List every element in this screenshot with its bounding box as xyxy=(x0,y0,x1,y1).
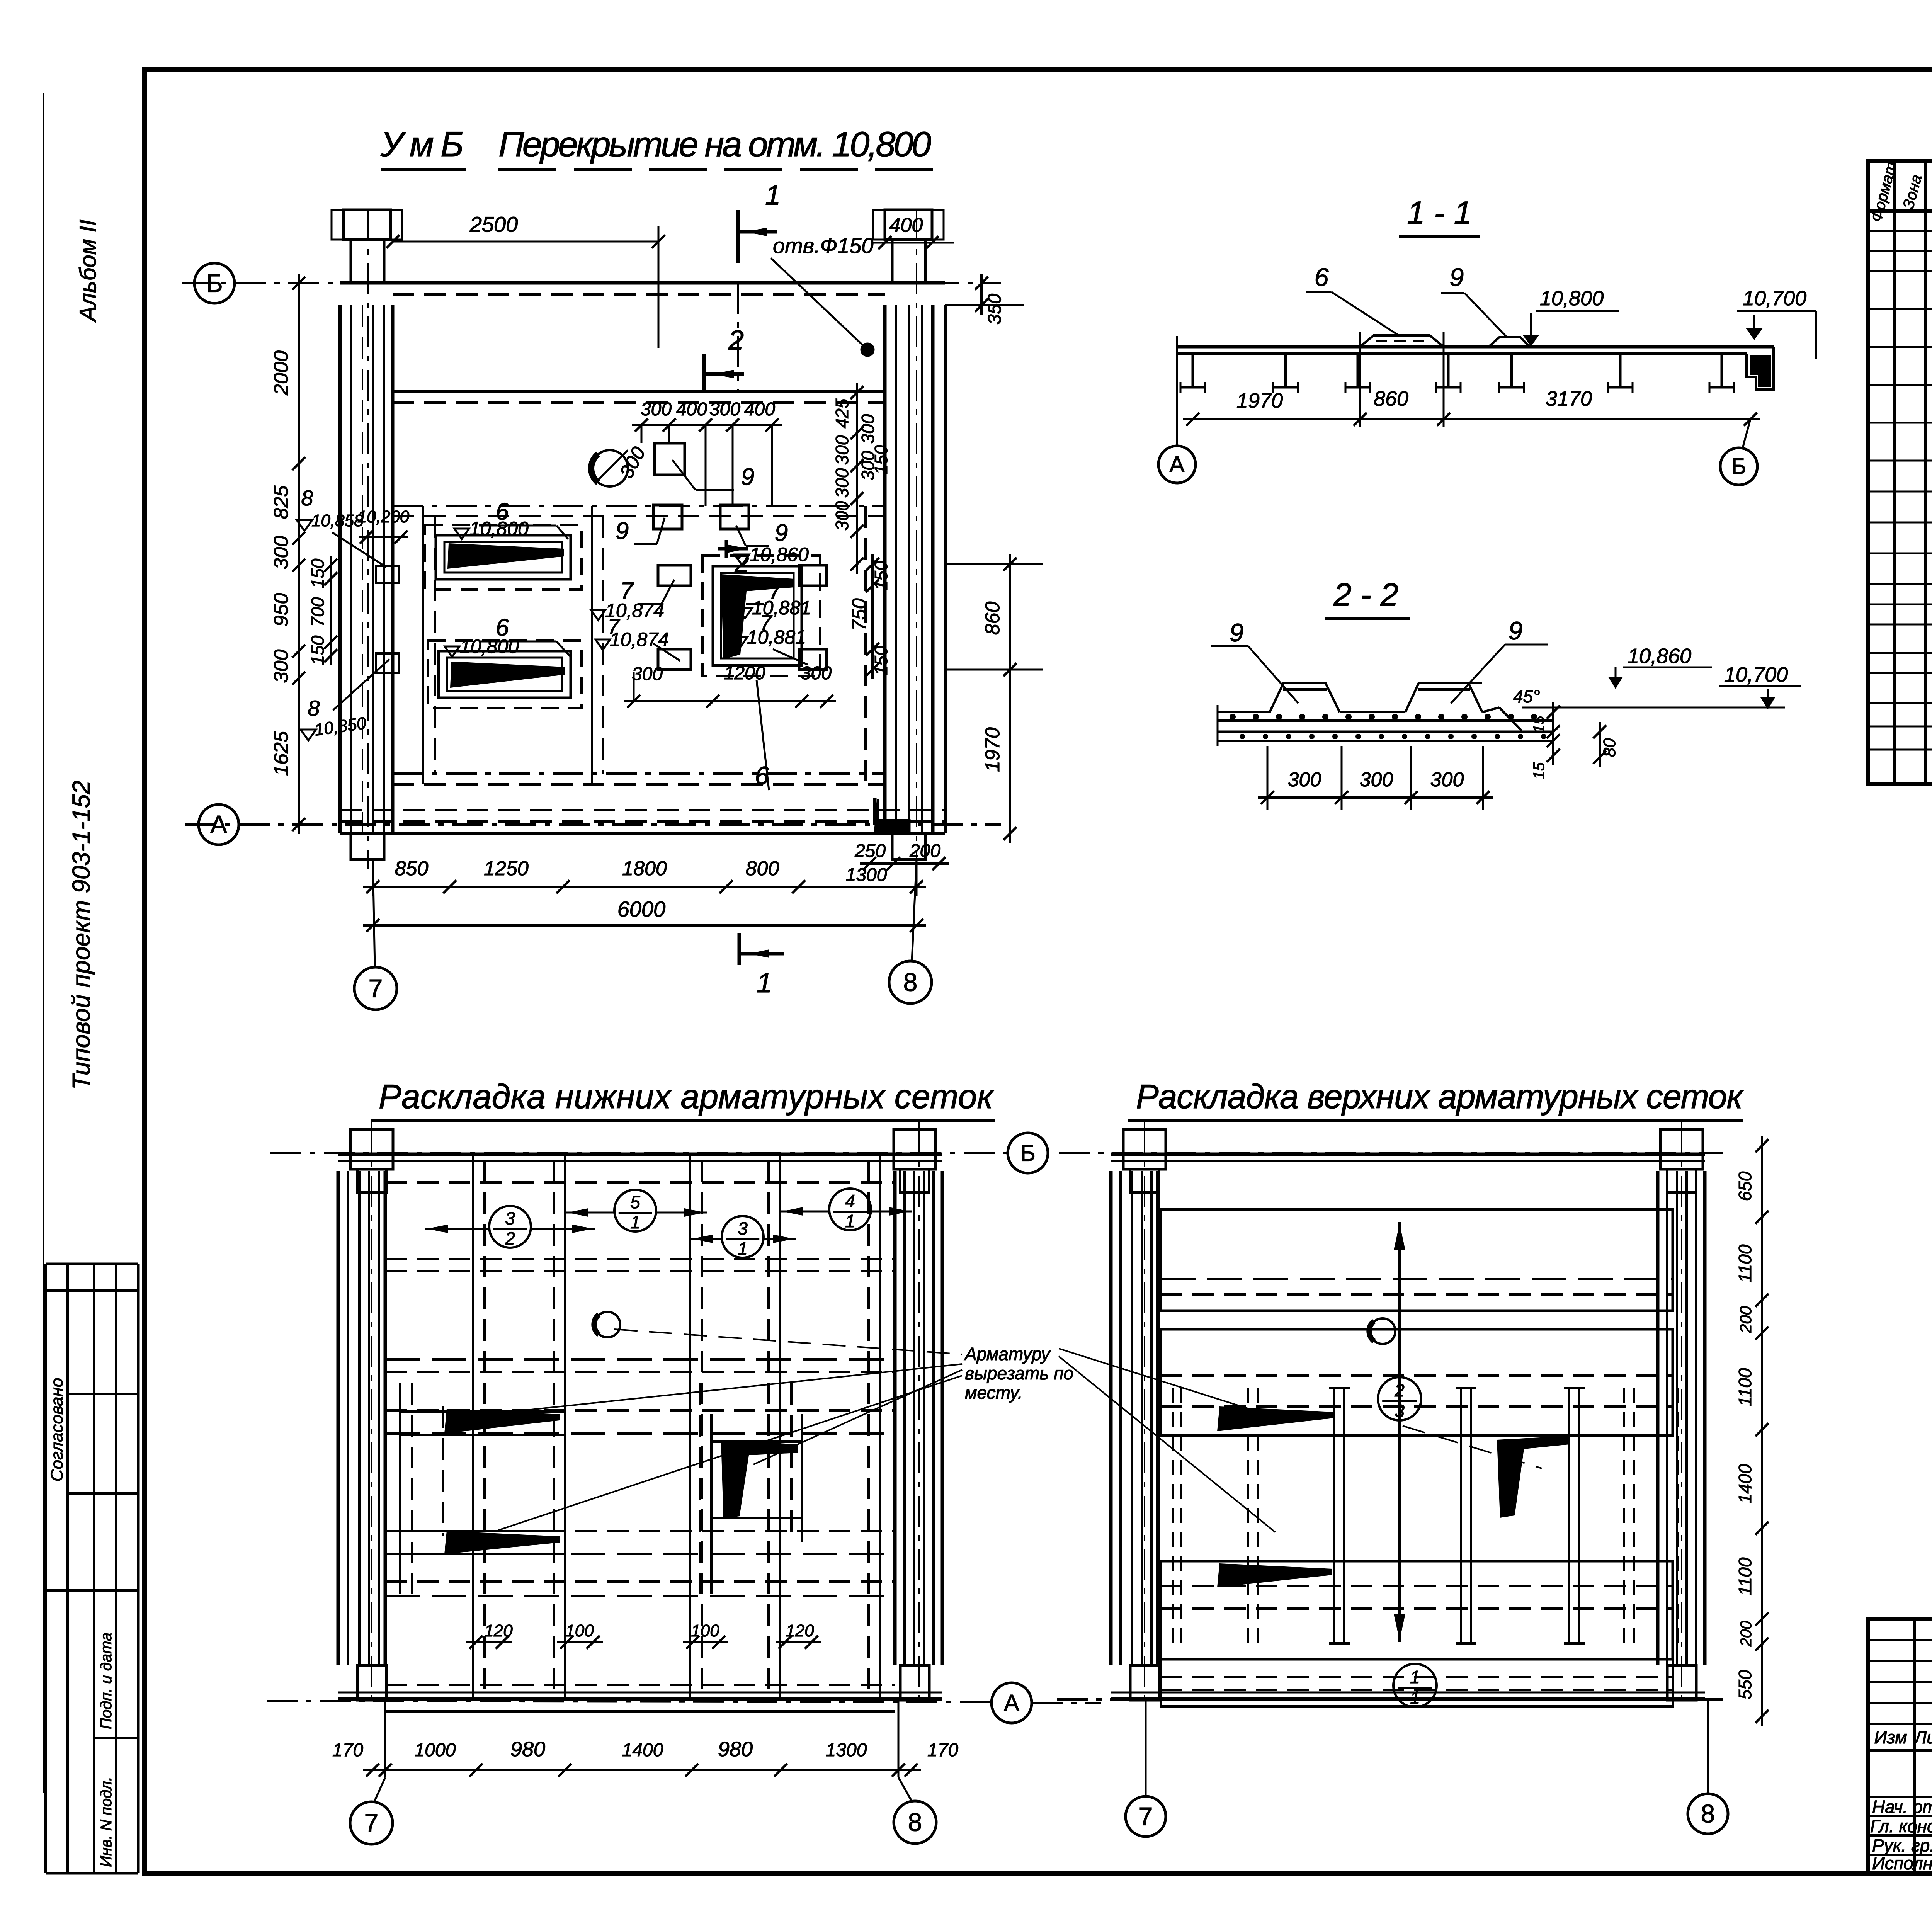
svg-text:8: 8 xyxy=(908,1808,922,1836)
ll bottom dim chain xyxy=(363,1769,921,1771)
svg-text:2 - 2: 2 - 2 xyxy=(1333,577,1398,613)
svg-text:170: 170 xyxy=(927,1740,958,1760)
svg-text:Подп. и дата: Подп. и дата xyxy=(98,1633,115,1729)
svg-text:10,700: 10,700 xyxy=(1743,287,1806,310)
svg-text:170: 170 xyxy=(332,1740,363,1760)
svg-text:9: 9 xyxy=(775,520,788,546)
ll wedge 2 xyxy=(444,1531,560,1554)
svg-text:860: 860 xyxy=(1374,387,1408,410)
ll grid circle B right xyxy=(1008,1133,1048,1173)
svg-text:1000: 1000 xyxy=(415,1740,456,1760)
section 1-1 elev 10,700 xyxy=(1746,328,1763,340)
plan top column left xyxy=(344,210,391,240)
svg-text:1800: 1800 xyxy=(622,857,667,880)
ll interior verticals xyxy=(472,1155,474,1698)
svg-text:80: 80 xyxy=(1600,738,1619,757)
svg-text:9: 9 xyxy=(741,464,754,490)
svg-text:300: 300 xyxy=(801,663,832,684)
svg-text:Перекрытие на отм. 10,800: Перекрытие на отм. 10,800 xyxy=(498,125,931,164)
section 1-1 circle B xyxy=(1720,448,1757,485)
svg-text:7: 7 xyxy=(369,974,383,1002)
svg-text:2500: 2500 xyxy=(469,212,518,236)
svg-text:Альбом II: Альбом II xyxy=(75,219,101,323)
lm wedge L1 xyxy=(1217,1406,1334,1431)
svg-text:300: 300 xyxy=(641,399,672,420)
svg-text:150: 150 xyxy=(308,558,328,588)
lm sheet rect A xyxy=(1161,1209,1673,1311)
ll mesh band rects xyxy=(399,1383,401,1594)
ll right wall xyxy=(893,1171,897,1665)
ll grid circle A right xyxy=(992,1683,1032,1723)
svg-text:Б: Б xyxy=(206,269,223,297)
svg-text:300: 300 xyxy=(832,435,852,465)
svg-text:Изм: Изм xyxy=(1874,1727,1907,1747)
svg-text:7: 7 xyxy=(364,1808,379,1837)
ll wedge 1 xyxy=(444,1409,560,1434)
svg-text:1400: 1400 xyxy=(622,1740,663,1760)
section 2-2 ref line 10,700 xyxy=(1522,707,1785,709)
svg-text:Раскладка нижних арматурны: Раскладка нижних арматурных сеток xyxy=(379,1077,994,1116)
circular hole xyxy=(592,450,628,486)
svg-text:2000: 2000 xyxy=(270,350,293,396)
ll axis lines xyxy=(270,1152,1016,1154)
svg-text:1: 1 xyxy=(765,180,781,211)
svg-text:150: 150 xyxy=(308,635,328,665)
lm grid circle 8 xyxy=(1688,1794,1728,1834)
section mark 2 lower xyxy=(725,540,728,558)
left dim chain xyxy=(298,274,300,834)
svg-text:8: 8 xyxy=(308,696,320,720)
svg-text:150: 150 xyxy=(871,561,891,590)
svg-text:300: 300 xyxy=(1430,769,1464,791)
svg-text:10,881: 10,881 xyxy=(747,626,806,648)
svg-text:месту.: месту. xyxy=(965,1383,1023,1403)
svg-text:8: 8 xyxy=(1701,1799,1715,1828)
svg-text:10,858: 10,858 xyxy=(311,511,364,530)
section 2-2 45 deg slope xyxy=(1468,682,1482,684)
svg-text:2: 2 xyxy=(1394,1380,1405,1400)
slab bottom line xyxy=(340,832,945,835)
svg-text:1200: 1200 xyxy=(724,663,765,684)
sheet left edge line xyxy=(43,93,44,1793)
ll grid circle 7 xyxy=(350,1802,393,1844)
plan left wall xyxy=(338,305,342,833)
svg-text:9: 9 xyxy=(1450,263,1464,291)
plan bottom column stubs xyxy=(351,833,384,859)
lm mid band verticals xyxy=(1333,1388,1335,1643)
svg-text:Рук. гр.: Рук. гр. xyxy=(1872,1835,1932,1855)
svg-text:10,700: 10,700 xyxy=(1724,663,1788,686)
svg-text:350: 350 xyxy=(985,294,1005,325)
grid circle B xyxy=(194,263,235,303)
slab mid dashdot xyxy=(393,505,885,507)
dim 6000 xyxy=(363,924,926,927)
lm fraction circle 1/1 xyxy=(1393,1664,1437,1707)
ll wedge 3 xyxy=(721,1440,798,1519)
svg-text:1100: 1100 xyxy=(1735,1368,1755,1406)
lm slab top/bottom xyxy=(1111,1153,1705,1156)
svg-text:800: 800 xyxy=(746,857,779,880)
lm wedge L2 xyxy=(1217,1563,1332,1587)
plan top column right xyxy=(885,210,932,240)
lm right wall xyxy=(1656,1171,1660,1665)
svg-text:300: 300 xyxy=(1288,769,1321,791)
svg-text:Арматуру: Арматуру xyxy=(964,1344,1051,1364)
svg-text:3: 3 xyxy=(738,1218,748,1238)
slab lower dashed xyxy=(393,772,885,775)
svg-text:200: 200 xyxy=(1738,1621,1755,1647)
dashed outlines around openings xyxy=(425,525,582,590)
svg-text:550: 550 xyxy=(1735,1670,1755,1699)
svg-text:4: 4 xyxy=(845,1191,855,1211)
svg-text:1250: 1250 xyxy=(484,857,529,880)
svg-text:Нач. отд.: Нач. отд. xyxy=(1872,1797,1932,1817)
svg-text:1: 1 xyxy=(630,1212,640,1232)
svg-text:1970: 1970 xyxy=(1236,389,1283,412)
svg-text:300: 300 xyxy=(832,468,852,498)
far right dims 860 1970 xyxy=(945,563,1043,565)
left dim secondary xyxy=(330,556,332,665)
section mark 1 bottom xyxy=(738,933,741,965)
lm grid circle 7 xyxy=(1126,1796,1166,1837)
section 1-1 hump item9 xyxy=(1489,337,1529,347)
svg-text:1: 1 xyxy=(1410,1688,1420,1708)
svg-text:1100: 1100 xyxy=(1735,1557,1755,1595)
ll small circle xyxy=(595,1312,620,1337)
svg-text:700: 700 xyxy=(308,597,328,627)
svg-text:А: А xyxy=(1170,452,1185,477)
svg-text:3: 3 xyxy=(505,1208,515,1228)
svg-text:Согласовано: Согласовано xyxy=(48,1378,66,1481)
svg-text:400: 400 xyxy=(676,399,707,420)
section mark 2 upper xyxy=(702,354,706,390)
svg-text:1: 1 xyxy=(738,1238,748,1259)
svg-text:вырезать по: вырезать по xyxy=(965,1363,1073,1383)
svg-text:200: 200 xyxy=(1736,1306,1755,1333)
section 1-1 circle A xyxy=(1158,446,1196,483)
svg-text:1: 1 xyxy=(1410,1667,1420,1687)
svg-text:1400: 1400 xyxy=(1735,1464,1755,1503)
dim 400 xyxy=(871,242,954,244)
svg-text:750: 750 xyxy=(848,598,870,631)
opening O2 xyxy=(439,651,571,698)
section 2-2 elev 10,860 xyxy=(1608,677,1623,689)
section 2-2 elev 10,700 xyxy=(1760,697,1775,709)
svg-text:Б: Б xyxy=(1731,454,1746,479)
lm sheet rect C xyxy=(1161,1561,1673,1659)
ll slab top/bottom xyxy=(338,1153,942,1156)
svg-text:2: 2 xyxy=(505,1228,515,1248)
section mark 1 top xyxy=(736,210,740,263)
svg-text:Инв. N подл.: Инв. N подл. xyxy=(98,1777,115,1867)
svg-text:10,800: 10,800 xyxy=(1540,287,1604,310)
svg-text:300: 300 xyxy=(270,536,293,570)
svg-text:1300: 1300 xyxy=(826,1740,867,1760)
margin table xyxy=(44,1264,47,1873)
dim 350 right xyxy=(945,304,1024,306)
right dims 150 750 150 xyxy=(871,554,874,679)
opening O1 xyxy=(436,535,571,579)
grid circle 8 xyxy=(889,961,932,1003)
lm leader lines from left text xyxy=(1059,1349,1264,1413)
section 2-2 rebar dots xyxy=(1230,714,1236,720)
svg-text:100: 100 xyxy=(565,1621,594,1640)
svg-text:6000: 6000 xyxy=(617,897,666,921)
ll bottom stubs xyxy=(357,1665,386,1700)
lm wedge R xyxy=(1497,1436,1570,1518)
svg-text:300: 300 xyxy=(632,664,663,684)
title block xyxy=(1868,1619,1932,1874)
svg-text:100: 100 xyxy=(691,1621,719,1640)
parts table xyxy=(1868,161,1932,784)
grid circle 7 xyxy=(354,967,397,1010)
svg-text:425: 425 xyxy=(832,398,852,428)
lm right dim chain xyxy=(1761,1136,1763,1726)
lm bottom stubs xyxy=(1130,1665,1159,1700)
section 1-1 hump item6 xyxy=(1360,335,1444,347)
svg-text:Гл. констр: Гл. констр xyxy=(1870,1816,1932,1836)
svg-text:УмБ: УмБ xyxy=(380,125,464,164)
svg-text:1: 1 xyxy=(845,1211,855,1231)
svg-text:Раскладка верхних арматурны: Раскладка верхних арматурных сеток xyxy=(1136,1077,1744,1116)
ll left wall xyxy=(337,1171,340,1665)
column axis 7 dashdot xyxy=(367,210,369,869)
ll horizontal dashed xyxy=(385,1181,895,1184)
ll top columns xyxy=(350,1129,393,1169)
lm bottom strip xyxy=(1161,1659,1673,1706)
plan right wall xyxy=(883,305,887,833)
svg-text:1 - 1: 1 - 1 xyxy=(1407,195,1472,231)
svg-text:2: 2 xyxy=(728,325,744,356)
lm central arrow xyxy=(1398,1222,1401,1642)
svg-text:10,800: 10,800 xyxy=(460,636,519,657)
svg-text:45°: 45° xyxy=(1513,686,1540,706)
svg-text:10,800: 10,800 xyxy=(469,518,529,539)
svg-text:9: 9 xyxy=(1509,616,1523,645)
svg-text:950: 950 xyxy=(270,593,293,627)
section 2-2 hump 2 xyxy=(1405,683,1482,712)
svg-text:150: 150 xyxy=(871,445,891,474)
ll grid circle 8 xyxy=(894,1801,936,1844)
section 2-2 slab xyxy=(1218,711,1270,713)
svg-text:15: 15 xyxy=(1531,716,1548,733)
svg-text:10,860: 10,860 xyxy=(750,544,809,565)
svg-text:8: 8 xyxy=(301,486,313,510)
section 2-2 hump 1 xyxy=(1270,683,1340,712)
svg-text:3: 3 xyxy=(1395,1401,1405,1421)
svg-text:300: 300 xyxy=(270,650,293,683)
svg-text:860: 860 xyxy=(981,602,1004,635)
svg-text:300: 300 xyxy=(709,399,740,420)
svg-text:5: 5 xyxy=(630,1192,640,1212)
svg-text:300: 300 xyxy=(1360,769,1393,791)
svg-text:10,860: 10,860 xyxy=(1628,645,1691,668)
svg-text:1970: 1970 xyxy=(981,727,1004,772)
section 1-1 I-beams xyxy=(1192,354,1194,387)
section 1-1 elev 10,800 xyxy=(1522,335,1539,347)
svg-text:6: 6 xyxy=(1315,263,1329,291)
svg-text:Лист: Лист xyxy=(1913,1727,1932,1747)
svg-text:980: 980 xyxy=(718,1738,753,1761)
svg-text:1: 1 xyxy=(757,968,772,998)
lm top columns xyxy=(1123,1129,1166,1169)
section 1-1 right step xyxy=(1747,347,1774,389)
grid circle A xyxy=(199,804,239,845)
svg-text:7: 7 xyxy=(1139,1802,1153,1830)
svg-text:980: 980 xyxy=(510,1738,545,1761)
section 1-1 slab xyxy=(1177,345,1774,349)
slab second line xyxy=(393,390,885,393)
column axis 8 dashdot xyxy=(916,210,917,869)
svg-text:9: 9 xyxy=(616,518,629,544)
section 1-1 dims xyxy=(1183,418,1760,420)
bottom step mark xyxy=(875,798,910,823)
svg-text:15: 15 xyxy=(1531,762,1548,779)
lm column axes xyxy=(1144,1122,1145,1708)
lm left wall xyxy=(1109,1171,1113,1665)
svg-text:А: А xyxy=(1004,1690,1019,1716)
svg-text:250: 250 xyxy=(854,841,886,861)
svg-text:850: 850 xyxy=(395,857,429,880)
svg-text:Исполн.: Исполн. xyxy=(1872,1853,1932,1873)
svg-text:8: 8 xyxy=(903,968,918,996)
svg-text:400: 400 xyxy=(889,214,923,236)
bottom dim chain xyxy=(363,886,926,888)
section 2-2 dims 300x3 xyxy=(1258,796,1493,799)
small rects item 7 xyxy=(658,565,691,586)
svg-text:300: 300 xyxy=(858,414,878,444)
dim 2500 xyxy=(393,241,658,243)
section 2-2 dims 15 80 15 xyxy=(1552,702,1554,765)
svg-text:400: 400 xyxy=(744,399,775,420)
opening O3 big xyxy=(713,566,802,665)
svg-text:825: 825 xyxy=(270,485,293,519)
svg-text:650: 650 xyxy=(1735,1171,1755,1201)
svg-text:150: 150 xyxy=(871,646,891,675)
svg-text:Б: Б xyxy=(1020,1140,1035,1166)
svg-text:1300: 1300 xyxy=(846,865,887,885)
ll column axes xyxy=(371,1122,372,1708)
lm small circle xyxy=(1370,1318,1395,1344)
svg-text:1625: 1625 xyxy=(270,731,293,776)
small squares item 9 xyxy=(655,443,685,475)
svg-text:10,200: 10,200 xyxy=(357,507,410,526)
svg-text:300: 300 xyxy=(832,501,852,531)
axis A dashdot xyxy=(185,823,1001,826)
slab top line xyxy=(340,281,945,285)
ll fraction circles xyxy=(489,1206,531,1248)
lm fraction circle 2/3 xyxy=(1378,1377,1421,1420)
axis B dashdot xyxy=(182,282,1001,284)
svg-text:1100: 1100 xyxy=(1735,1244,1755,1282)
svg-text:Типовой проект 903-1-152: Типовой проект 903-1-152 xyxy=(67,781,95,1090)
svg-text:отв.Ф150: отв.Ф150 xyxy=(773,233,874,258)
lm axis dashdot xyxy=(1059,1152,1723,1154)
small rects item 8 on wall xyxy=(376,566,399,583)
svg-text:9: 9 xyxy=(1230,618,1244,647)
interior verticals xyxy=(422,506,424,784)
lm sheet rect B xyxy=(1161,1329,1673,1435)
right rotated dim chain 425/300 xyxy=(856,383,858,574)
svg-text:200: 200 xyxy=(909,841,940,861)
svg-text:3170: 3170 xyxy=(1546,387,1592,410)
svg-text:А: А xyxy=(210,810,227,838)
